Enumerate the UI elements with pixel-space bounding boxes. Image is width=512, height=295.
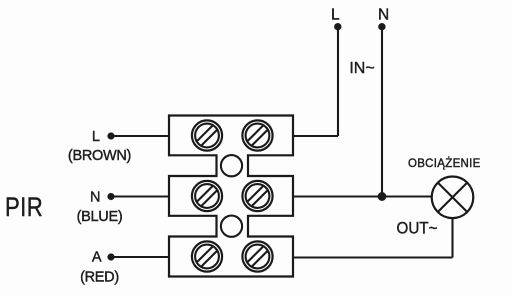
wire: TB1 row1 to L	[293, 135, 338, 137]
wire: lamp bottom down	[451, 218, 453, 257]
mounting hole H1	[221, 155, 242, 176]
node dot: PIR A lead	[108, 254, 115, 261]
svg-text:L: L	[331, 6, 340, 23]
svg-text:PIR: PIR	[5, 193, 43, 223]
terminal block TB1 outline	[169, 116, 293, 277]
node dot: PIR L lead	[108, 133, 115, 140]
svg-text:IN~: IN~	[349, 60, 374, 77]
screw terminal S3 (N row, left)	[192, 181, 222, 211]
screw terminal S4 (N row, right)	[242, 181, 272, 211]
svg-text:OUT~: OUT~	[397, 220, 438, 238]
screw terminal S1 (L row, left)	[192, 120, 222, 150]
screw terminal S2 (L row, right)	[242, 120, 272, 150]
mounting hole H2	[221, 216, 242, 237]
svg-text:L: L	[92, 129, 100, 145]
lamp / load E1	[432, 177, 474, 219]
svg-text:OBCIĄŻENIE: OBCIĄŻENIE	[408, 157, 481, 170]
svg-text:N: N	[378, 6, 389, 23]
screw terminal S5 (A row, left)	[192, 241, 222, 271]
svg-text:(BLUE): (BLUE)	[77, 209, 123, 225]
svg-text:(RED): (RED)	[80, 269, 119, 285]
node dot: PIR N lead	[108, 193, 115, 200]
svg-text:N: N	[90, 189, 100, 205]
wire: PIR N lead to TB1	[111, 195, 169, 197]
wire: TB1 row3 to lamp return	[293, 256, 453, 258]
wire: L supply down	[337, 27, 339, 136]
junction node on N net	[378, 192, 386, 200]
node N: supply terminal dot	[378, 23, 385, 30]
wire: PIR L lead to TB1	[111, 135, 169, 137]
screw terminal S6 (A row, right)	[242, 241, 272, 271]
svg-text:A: A	[92, 249, 102, 265]
node L: supply terminal dot	[334, 23, 341, 30]
wire: N supply down	[381, 27, 383, 197]
svg-text:(BROWN): (BROWN)	[68, 148, 131, 164]
wire: TB1 row2 to lamp (through N junction)	[293, 195, 432, 197]
wire: PIR A lead to TB1	[111, 256, 169, 258]
